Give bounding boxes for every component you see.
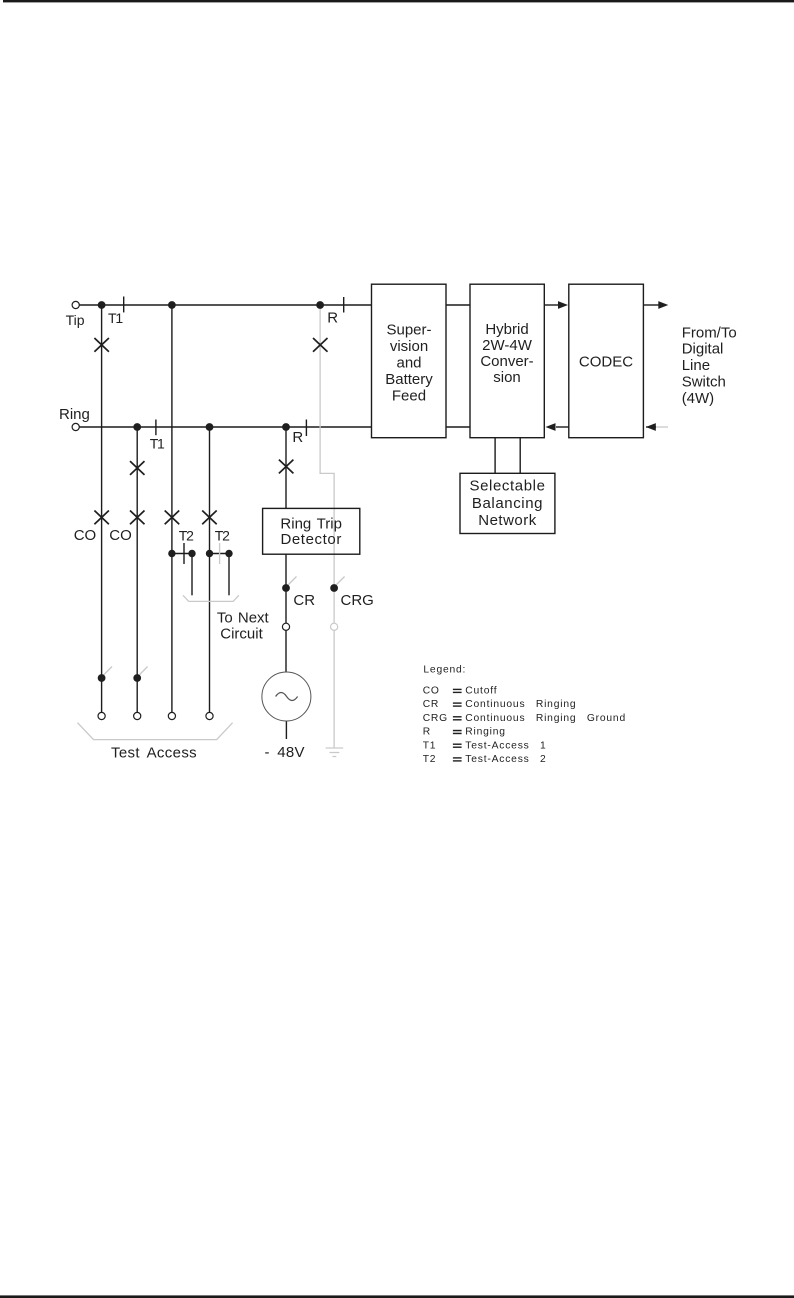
svg-text:Conver-: Conver- (480, 353, 533, 370)
svg-text:T2: T2 (215, 527, 230, 543)
svg-text:CODEC: CODEC (579, 353, 633, 370)
svg-text:Feed: Feed (392, 387, 426, 404)
svg-text:Test-Access 2: Test-Access 2 (465, 754, 546, 765)
svg-text:Super-: Super- (386, 321, 431, 338)
svg-text:Continuous Ringing: Continuous Ringing (465, 699, 576, 710)
svg-text:Circuit: Circuit (220, 626, 263, 643)
svg-text:Legend:: Legend: (423, 665, 466, 676)
svg-text:R: R (327, 309, 338, 326)
svg-text:Test-Access 1: Test-Access 1 (465, 740, 546, 751)
svg-text:T2: T2 (423, 754, 437, 765)
svg-text:T1: T1 (108, 310, 123, 326)
svg-text:sion: sion (493, 369, 521, 386)
svg-text:Selectable: Selectable (469, 478, 545, 495)
svg-text:CO: CO (423, 686, 440, 697)
svg-text:Test Access: Test Access (111, 745, 197, 762)
svg-text:CR: CR (293, 592, 315, 609)
svg-text:CR: CR (423, 699, 439, 710)
svg-text:Cutoff: Cutoff (465, 686, 497, 697)
svg-text:CO: CO (109, 527, 132, 544)
svg-text:Network: Network (478, 512, 537, 529)
svg-text:(4W): (4W) (682, 390, 715, 407)
svg-text:R: R (423, 727, 431, 738)
svg-text:vision: vision (390, 338, 428, 355)
svg-text:Ringing: Ringing (465, 727, 506, 738)
svg-text:R: R (292, 429, 303, 446)
svg-text:CRG: CRG (423, 713, 448, 724)
svg-text:Hybrid: Hybrid (485, 321, 528, 338)
svg-text:Battery: Battery (385, 371, 433, 388)
svg-text:Continuous Ringing Ground: Continuous Ringing Ground (465, 713, 626, 724)
svg-text:Switch: Switch (682, 374, 726, 391)
svg-text:Ring: Ring (59, 406, 90, 423)
svg-text:2W-4W: 2W-4W (482, 337, 533, 354)
svg-text:From/To: From/To (682, 324, 737, 341)
svg-text:T1: T1 (150, 436, 165, 452)
svg-text:CRG: CRG (341, 592, 374, 609)
svg-text:CO: CO (74, 527, 97, 544)
svg-text:- 48V: - 48V (265, 744, 305, 761)
svg-text:Detector: Detector (280, 531, 342, 548)
svg-text:and: and (396, 354, 421, 371)
svg-text:Digital: Digital (682, 341, 724, 358)
svg-text:Balancing: Balancing (472, 495, 543, 512)
svg-text:Tip: Tip (66, 312, 85, 328)
svg-text:To Next: To Next (217, 610, 270, 627)
svg-text:Line: Line (682, 357, 710, 374)
svg-text:T1: T1 (423, 740, 437, 751)
svg-text:T2: T2 (179, 527, 194, 543)
